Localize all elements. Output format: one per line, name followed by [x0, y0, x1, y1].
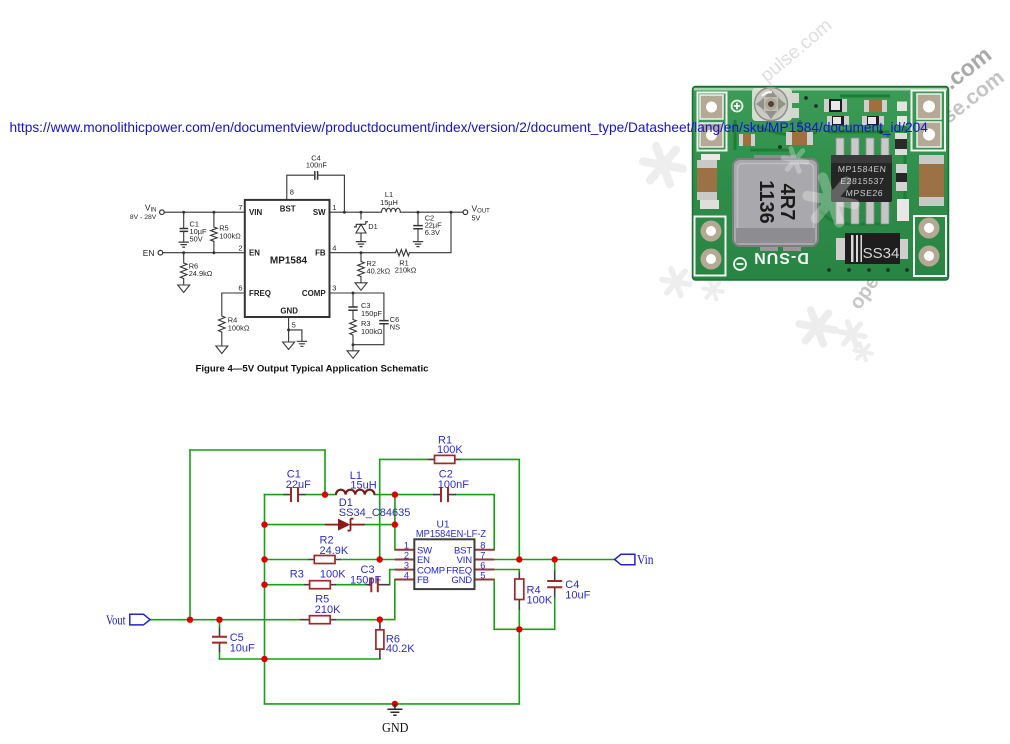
pin 4 lead [395, 579, 415, 581]
junction R1 VIN [516, 556, 522, 562]
wire SW row [330, 211, 463, 213]
wire GND pin5 [289, 317, 302, 342]
svg-text:SW: SW [313, 208, 326, 217]
ground GND pin earth [297, 341, 307, 346]
capacitor C2 plates [441, 487, 448, 502]
wire R3 row [265, 584, 366, 586]
wire R4 bottom [518, 610, 520, 630]
svg-text:150pF: 150pF [350, 574, 381, 586]
svg-text:MPSE26: MPSE26 [845, 188, 883, 198]
svg-text:10uF: 10uF [565, 589, 590, 601]
wire C5 bottom row [220, 658, 380, 660]
pin 5 lead [475, 579, 495, 581]
minus marking [734, 258, 746, 270]
wire C2 right BST riser [456, 495, 494, 550]
svg-text:2: 2 [404, 550, 409, 560]
junction R2 EN [377, 556, 383, 562]
svg-text:pulse.com: pulse.com [757, 15, 837, 87]
svg-text:SS34: SS34 [863, 245, 900, 262]
svg-text:Vin: Vin [637, 553, 654, 568]
wire GND pin riser [493, 580, 495, 630]
resistor R6 [180, 263, 187, 279]
svg-text:1: 1 [332, 203, 336, 212]
lead R6 [379, 620, 381, 659]
svg-text:NS: NS [390, 322, 400, 331]
resistor R1 [396, 250, 410, 256]
svg-text:6: 6 [238, 284, 242, 293]
wire top loop [190, 449, 325, 451]
resistor R1 body [435, 455, 455, 463]
junction C5 Vout [216, 617, 222, 623]
wire R2 right to EN pin [341, 559, 395, 561]
junction R6 EN [182, 251, 185, 254]
svg-text:4R7: 4R7 [776, 184, 798, 221]
wire right rail down [518, 629, 520, 704]
svg-text:24.9K: 24.9K [320, 545, 349, 557]
svg-text:15µH: 15µH [380, 198, 398, 207]
svg-text:2: 2 [238, 243, 242, 252]
wire SW node riser [394, 495, 396, 550]
svg-text:8: 8 [290, 188, 294, 197]
svg-text:VIN: VIN [249, 208, 262, 217]
svg-text:Vout: Vout [106, 614, 126, 629]
net flag Vout [130, 614, 150, 625]
lead R1 [429, 458, 461, 460]
ground C1 [179, 242, 189, 247]
junction R2 FB [360, 251, 363, 254]
wire GND bottom rail [265, 703, 520, 705]
wire FB row [330, 212, 452, 253]
svg-text:100K: 100K [527, 595, 553, 607]
lead R4 [518, 573, 520, 610]
wire R1 left riser [379, 459, 381, 559]
capacitor C4 [315, 171, 318, 180]
pin 7 lead [475, 559, 495, 561]
junction C3 COMP [352, 292, 355, 295]
junction C5 gnd row [261, 656, 267, 662]
terminal VOUT [463, 210, 468, 215]
wire FREQ to R4 [494, 570, 519, 573]
wire FREQ [222, 293, 245, 316]
junction Vout riser [187, 617, 193, 623]
ground GND pin triangle [283, 342, 295, 350]
svg-text:100kΩ: 100kΩ [219, 231, 241, 240]
wire VIN row [165, 211, 245, 213]
ground C2 [413, 242, 423, 247]
svg-text:5V: 5V [472, 214, 481, 223]
junction C4 VIN [552, 556, 558, 562]
junction R2 gnd rail [261, 556, 267, 562]
junction C4 SW [343, 211, 346, 214]
wire FB riser [380, 580, 395, 620]
pin 2 lead [395, 559, 414, 561]
svg-text:MP1584EN: MP1584EN [837, 164, 886, 174]
lead C1 [284, 494, 306, 496]
junction GND rail [392, 701, 398, 707]
wire C1 stubs [183, 212, 185, 242]
svg-text:BST: BST [280, 204, 296, 213]
SMD resistors and capacitors [739, 99, 909, 221]
photo watermark text [757, 15, 1009, 314]
wire COMP to C3 [390, 570, 395, 585]
resistor R2 body [314, 556, 335, 564]
wire to C1 L1 node [324, 450, 326, 495]
svg-text:GND: GND [451, 575, 472, 586]
svg-text:GND: GND [382, 721, 409, 736]
capacitor C3 plates [371, 577, 378, 592]
inductor L1 [382, 208, 401, 212]
wire EN row [163, 252, 245, 254]
junction L1 C2 SW [392, 491, 398, 497]
resistor R3 body [310, 581, 331, 589]
lead C5 [219, 628, 221, 653]
svg-text:COMP: COMP [302, 289, 326, 298]
svg-text:210kΩ: 210kΩ [395, 266, 417, 275]
junction C2 VOUT [417, 211, 420, 214]
svg-text:15uH: 15uH [350, 479, 376, 491]
PCB module photo [693, 87, 949, 281]
wire C4 stubs [554, 560, 556, 630]
svg-text:3: 3 [404, 560, 409, 570]
svg-text:8: 8 [480, 541, 485, 551]
resistor R4 [219, 316, 226, 332]
wire C2 stubs [417, 212, 419, 240]
capacitor C1 plates [291, 487, 298, 502]
svg-text:24.9kΩ: 24.9kΩ [189, 269, 213, 278]
potentiometer [752, 88, 799, 122]
svg-text:100nF: 100nF [306, 161, 327, 170]
lead C4 [554, 571, 556, 598]
svg-text:GND: GND [280, 307, 298, 316]
wire R6 stubs [183, 253, 185, 285]
vias [778, 96, 909, 272]
watermark overlay on PCB [783, 149, 854, 223]
svg-text:4: 4 [404, 570, 409, 580]
wire C6 bottom [353, 324, 384, 345]
op IC U1 box [414, 539, 474, 589]
junction D1 SW [392, 521, 398, 527]
svg-text:MP1584: MP1584 [270, 256, 308, 267]
svg-text:6: 6 [480, 560, 485, 570]
svg-text:40.2kΩ: 40.2kΩ [367, 266, 391, 275]
ground R6 [178, 285, 190, 293]
svg-text:10uF: 10uF [230, 642, 255, 654]
terminal EN [158, 250, 163, 255]
wire Vout row [150, 619, 300, 621]
svg-text:FREQ: FREQ [249, 289, 271, 298]
svg-text:210K: 210K [315, 604, 341, 616]
resistor R5 body [310, 616, 331, 624]
wire D1 stubs [360, 212, 362, 240]
pin 1 lead [395, 549, 414, 551]
svg-text:5: 5 [292, 321, 296, 330]
junction R3 C6 [352, 343, 355, 346]
ground R3 [347, 351, 359, 359]
terminal VIN [160, 210, 165, 215]
svg-text:MP1584EN-LF-Z: MP1584EN-LF-Z [416, 529, 486, 540]
photo watermark snowflakes [643, 146, 872, 360]
wire C3 R3 stubs [352, 293, 354, 350]
svg-text:FB: FB [315, 249, 326, 258]
wire Vout vertical riser [189, 450, 191, 620]
wire C5 stubs [219, 620, 221, 659]
inductor 4R7 [733, 155, 818, 251]
svg-text:D-SUN: D-SUN [753, 249, 809, 266]
wire D1 right [365, 524, 395, 526]
wire L1 right to C2 [375, 494, 434, 496]
svg-text:22uF: 22uF [286, 479, 311, 491]
wire COMP row [330, 293, 384, 320]
capacitor C3 [348, 307, 357, 310]
link URL [10, 120, 928, 135]
inductor L1 coil [336, 490, 374, 495]
wire VIN row to flag [494, 559, 614, 561]
junction R5 R6 FB [377, 616, 383, 622]
edge capacitors [697, 154, 944, 209]
junction D1 gnd rail [261, 521, 267, 527]
wire GND left rail [264, 495, 266, 704]
diode D1 [325, 519, 365, 531]
capacitor C4 plates [547, 581, 562, 587]
resistor R4 body [515, 579, 524, 600]
svg-text:FB: FB [417, 575, 429, 586]
wire R5 stubs [213, 212, 215, 253]
resistor R6 body [376, 630, 384, 649]
svg-text:40.2K: 40.2K [386, 643, 415, 655]
svg-text:R3: R3 [290, 568, 304, 580]
svg-text:VIN: VIN [145, 202, 157, 213]
svg-text:4: 4 [332, 243, 336, 252]
wire C1 left [265, 494, 284, 496]
capacitor C1 [180, 229, 189, 232]
wire R2 left [265, 559, 309, 561]
plus marking [732, 101, 743, 112]
diode SS34 [836, 233, 908, 264]
pin 3 lead [395, 569, 414, 571]
junction R4 bottom [516, 626, 522, 632]
svg-text:3: 3 [332, 284, 336, 293]
capacitor C6 [379, 321, 388, 324]
lead C2 [433, 494, 456, 496]
wire R1 row [380, 459, 520, 559]
svg-text:EN: EN [249, 249, 260, 258]
svg-text:100K: 100K [437, 444, 463, 456]
wire D1 left [265, 524, 326, 526]
lead R5 [300, 619, 336, 621]
svg-text:EN: EN [143, 248, 155, 258]
wire R5 right [336, 619, 380, 621]
svg-text:7: 7 [480, 550, 485, 560]
junction R5 EN [212, 251, 215, 254]
junction GND pin [287, 328, 290, 331]
junction C1 VIN [182, 211, 185, 214]
ground GND symbol [387, 704, 402, 715]
svg-text:6.3V: 6.3V [425, 228, 440, 237]
svg-text:50V: 50V [190, 234, 203, 243]
resistor R5 [211, 227, 218, 241]
svg-text:100K: 100K [320, 568, 346, 580]
net flag Vin [615, 554, 635, 565]
svg-text:150pF: 150pF [361, 309, 382, 318]
svg-text:D1: D1 [368, 222, 377, 231]
wire C1 right to L1 [306, 494, 337, 496]
junction D1 SW [360, 211, 363, 214]
svg-text:1: 1 [404, 541, 409, 551]
lead R3 C3 [304, 584, 390, 586]
diode D1 [354, 222, 368, 233]
resistor R2 [358, 262, 365, 277]
svg-text:100kΩ: 100kΩ [361, 327, 383, 336]
svg-text:1136: 1136 [755, 180, 777, 223]
junction R5 VIN [212, 211, 215, 214]
svg-text:5: 5 [480, 570, 485, 580]
svg-text:SS34_C84635: SS34_C84635 [339, 507, 411, 519]
IC U MP1584 box [245, 200, 330, 317]
wire R2 stubs [360, 253, 362, 283]
svg-text:100kΩ: 100kΩ [228, 323, 250, 332]
capacitor C5 plates [212, 637, 227, 643]
pin 8 lead [475, 549, 495, 551]
wire BST loop [287, 175, 345, 212]
junction R1 VOUT [450, 211, 453, 214]
ground D1 [356, 242, 366, 247]
lead R2 [309, 559, 341, 561]
svg-text:8V - 28V: 8V - 28V [130, 214, 157, 221]
junction R3 gnd rail [261, 582, 267, 588]
svg-text:7: 7 [238, 203, 242, 212]
junction C1 L1 [322, 491, 328, 497]
PCB corner pads [695, 91, 947, 277]
resistor R3 [350, 320, 357, 336]
svg-text:100nF: 100nF [438, 479, 469, 491]
ground R2 [355, 283, 367, 291]
capacitor C2 [413, 226, 423, 229]
pin 6 lead [475, 569, 495, 571]
wire mid bottom row [494, 628, 555, 630]
IC MP1584EN SOIC-8 [831, 138, 892, 224]
wire R4 stub [221, 332, 223, 345]
ground R4 [216, 346, 228, 354]
svg-text:Figure 4—5V Output Typical App: Figure 4—5V Output Typical Application S… [196, 364, 430, 375]
